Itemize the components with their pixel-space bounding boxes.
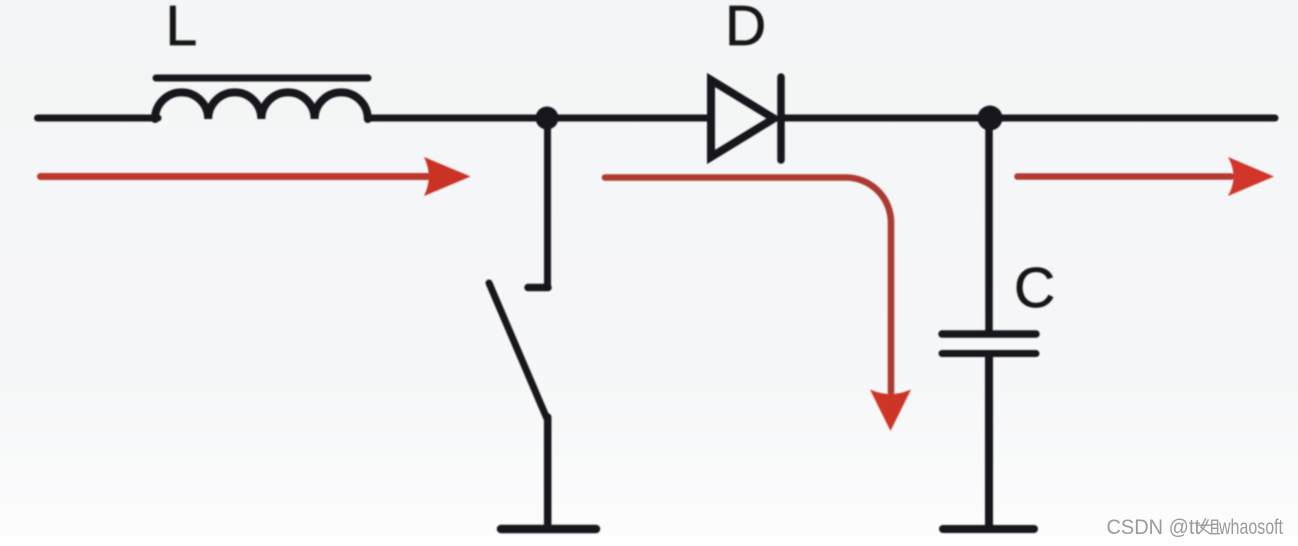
svg-text:D: D xyxy=(725,0,766,58)
current arrow 2 shaft (through diode, bends down) xyxy=(605,178,891,393)
svg-text:C: C xyxy=(1014,256,1055,320)
current arrow 2 head xyxy=(870,390,911,432)
wire input segment left xyxy=(38,115,159,122)
current arrow 1 head xyxy=(424,157,471,196)
capacitor C bottom plate xyxy=(942,350,1036,357)
inductor L core bar xyxy=(156,75,368,82)
svg-text:CSDN @tt: CSDN @tt xyxy=(1107,516,1201,539)
diode D anode triangle xyxy=(711,80,774,157)
watermark CSDN @tt姐whaosoft xyxy=(1107,516,1284,539)
capacitor C top plate xyxy=(942,330,1036,338)
inductor L coil arcs xyxy=(155,92,368,119)
diode D cathode bar xyxy=(777,77,785,160)
capacitor C lower lead xyxy=(985,356,993,526)
switch S lower lead xyxy=(544,417,552,526)
ground bar xyxy=(501,525,596,534)
svg-text:whaosoft: whaosoft xyxy=(1218,516,1283,539)
current arrow 3 head xyxy=(1228,157,1274,196)
switch S blade xyxy=(489,283,548,421)
node B junction dot xyxy=(978,106,1003,131)
capacitor C upper lead xyxy=(985,126,993,331)
switch S upper lead xyxy=(544,126,551,287)
svg-text:L: L xyxy=(166,0,198,58)
current arrow 1 shaft (input) xyxy=(41,173,428,180)
wire diode to output xyxy=(781,115,1275,122)
switch S contact stub xyxy=(528,284,548,292)
capacitor bottom bar xyxy=(943,525,1034,533)
node A junction dot xyxy=(536,107,559,130)
wire inductor to diode xyxy=(368,115,708,122)
current arrow 3 shaft (output) xyxy=(1018,173,1232,180)
